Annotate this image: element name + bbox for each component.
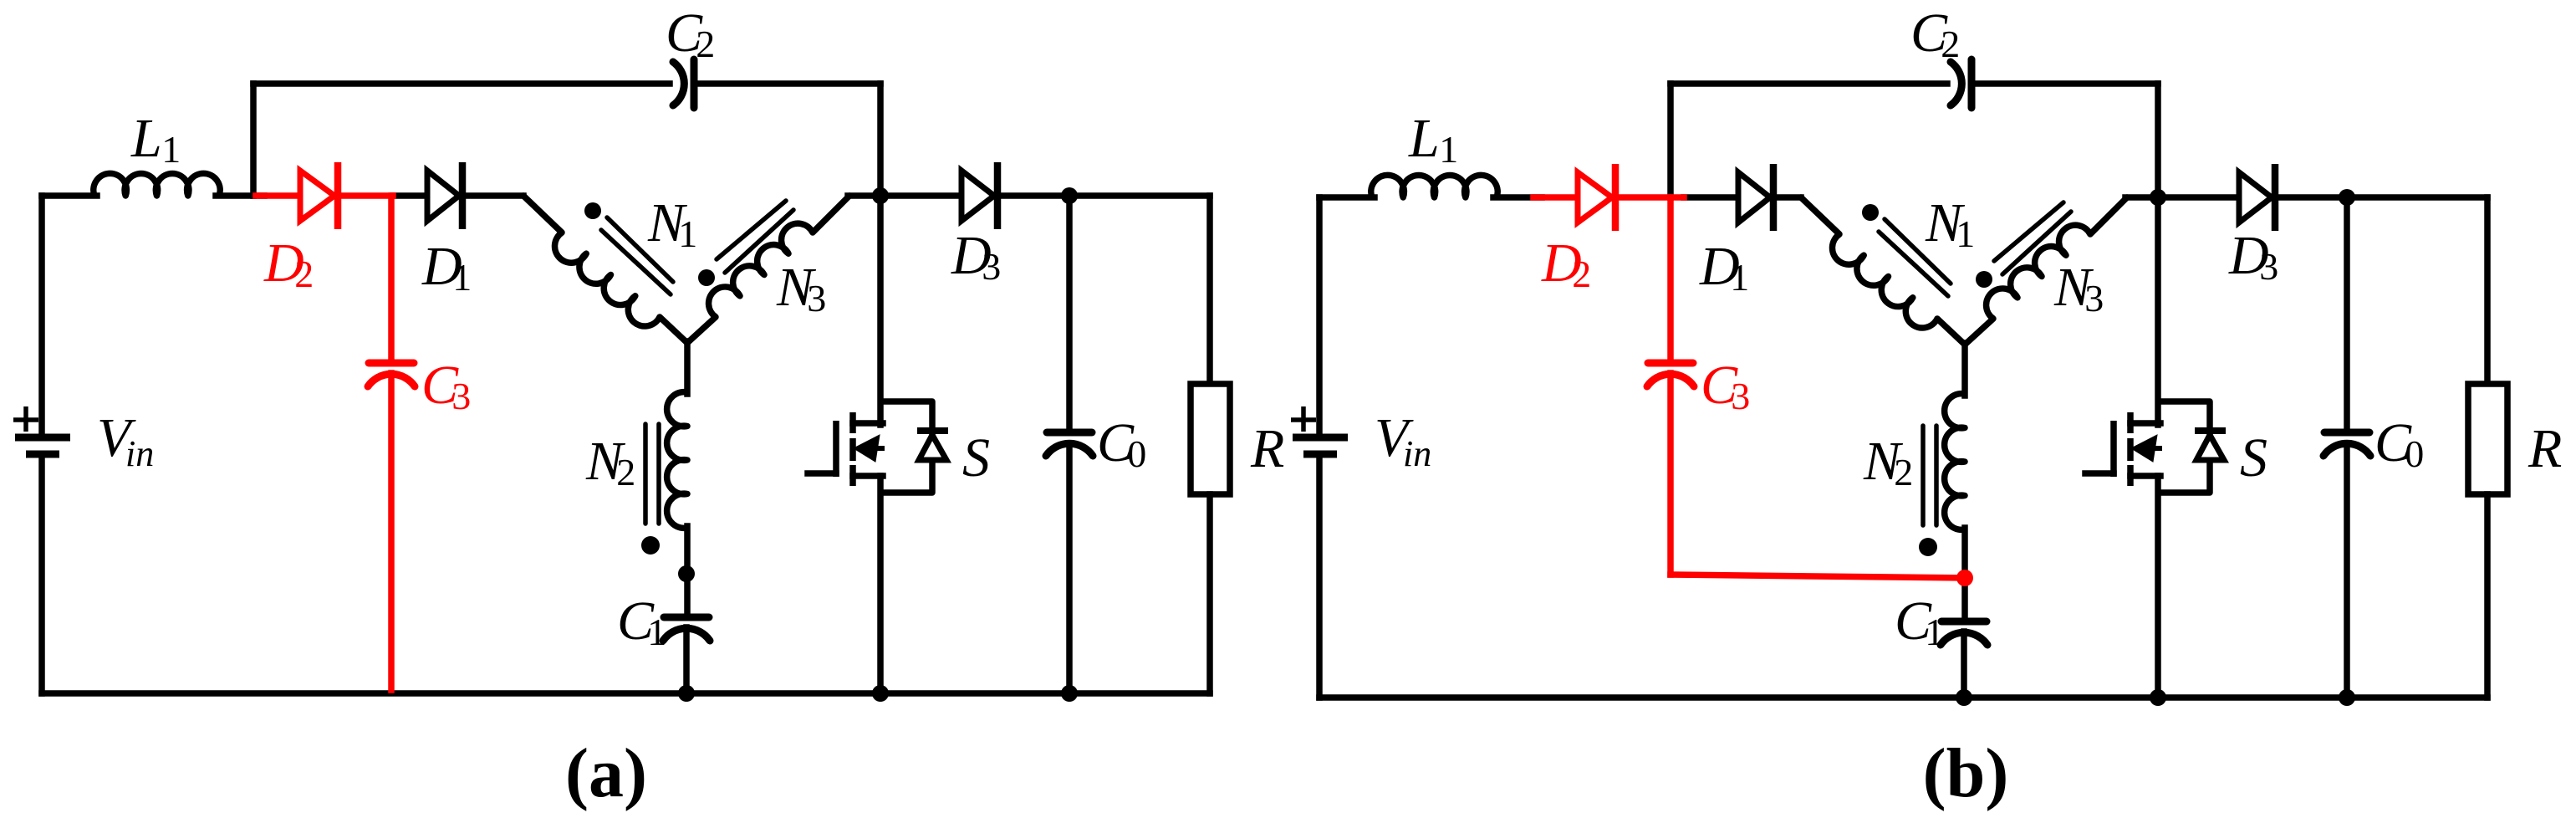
wire: C2 top wire right segment (a) [700, 80, 880, 87]
wire: output node to load branch (a) [1069, 192, 1210, 199]
svg-text:(b): (b) [1923, 734, 2009, 812]
wire: red link C3 to C1 node (b) [1671, 575, 1965, 578]
diode D2 red anode lead (a) [256, 192, 300, 199]
node dot C0-rail (b) [2339, 689, 2355, 706]
wire: C1 to ground rail (b) [1961, 631, 1967, 698]
capacitor C3 (a) [369, 360, 414, 367]
transistor S bulk arrow (a) [854, 435, 880, 462]
node A: drain node dot (b) [2150, 189, 2166, 206]
transistor S gate bar (b) [2110, 421, 2117, 477]
wire: C0 bottom lead (a) [1066, 444, 1073, 693]
wire: input top segment (b) [1319, 194, 1375, 201]
wire: node to D3 anode (a) [880, 192, 962, 199]
node dot C1-rail (a) [678, 685, 695, 702]
svg-text:3: 3 [1731, 375, 1750, 417]
transistor S source connect (b) [2130, 473, 2160, 479]
wire: center node to N2 (b) [1961, 343, 1968, 396]
svg-text:2: 2 [294, 253, 314, 295]
wire: C0 bottom lead (b) [2344, 444, 2350, 698]
svg-text:1: 1 [452, 256, 472, 299]
wire: D2 cathode red lead (a) [335, 192, 393, 199]
svg-text:1: 1 [647, 611, 666, 653]
wire: C3 top red lead (b) [1667, 197, 1674, 360]
wire: output node to load branch (b) [2347, 194, 2487, 201]
svg-text:1: 1 [161, 128, 181, 171]
winding N3 core bars (b) [1994, 202, 2063, 261]
diode D1 (b) [1738, 172, 1770, 222]
svg-text:1: 1 [1956, 212, 1975, 255]
wire: diagonal into winding N1 (a) [523, 196, 562, 233]
transistor S bulk arrow (b) [2131, 435, 2157, 462]
capacitor C0 (a) [1047, 429, 1092, 437]
resistor R (b) [2468, 384, 2507, 494]
wire: C3 bottom red lead to rail (a) [388, 373, 395, 690]
wire: C3 node to D1 anode (b) [1684, 194, 1738, 201]
svg-text:in: in [125, 433, 154, 474]
svg-text:L: L [130, 108, 162, 169]
svg-text:in: in [1403, 433, 1431, 474]
wire: L1 to D2 anode (a) [216, 192, 264, 199]
wire: C3 top red lead (a) [388, 196, 395, 360]
svg-text:R: R [1250, 418, 1284, 479]
svg-text:1: 1 [1925, 611, 1944, 653]
inductor L1 (b) [1371, 175, 1497, 197]
wire: D1 cathode to coupled inductor (a) [462, 192, 523, 199]
winding N2 coil (a) [667, 392, 687, 529]
transistor S drain connect (a) [853, 420, 883, 427]
wire: center node to N2 (a) [684, 341, 691, 394]
wire: D1 cathode to coupled inductor (b) [1773, 194, 1801, 201]
winding N1 core bars (a) [607, 217, 673, 282]
transistor S body diode (b) [2196, 435, 2224, 460]
capacitor C1 (b) [1941, 618, 1987, 626]
wire: diagonal center to N3 (a) [687, 317, 716, 343]
wire: R bottom lead (b) [2484, 494, 2491, 698]
diode D2 (b) [1578, 172, 1612, 222]
svg-text:2: 2 [616, 451, 635, 493]
transistor S body-diode loop (a) [880, 401, 932, 493]
wire: L1 to D2 anode (b) [1493, 194, 1542, 201]
source Vin battery plates (b) [1293, 434, 1348, 442]
svg-text:3: 3 [2084, 277, 2104, 319]
wire: Vin top lead (b) [1316, 197, 1323, 434]
transistor S channel segments (b) [2127, 412, 2134, 433]
winding N2 core bars (a) [643, 424, 648, 524]
svg-text:S: S [962, 427, 990, 488]
wire: Vin bottom lead (b) [1316, 458, 1323, 698]
capacitor C2 curved plate (b) [1951, 62, 1961, 105]
wire: D3 cathode to output node (a) [997, 192, 1069, 199]
wire: C3 node to D1 anode (a) [393, 192, 427, 199]
transistor S source connect (a) [853, 473, 883, 479]
wire: MOSFET source to rail (b) [2155, 476, 2161, 698]
node junction above C1 (a) [678, 565, 695, 582]
svg-text:2: 2 [1894, 451, 1913, 493]
svg-text:S: S [2240, 427, 2267, 488]
node dot source-rail (b) [2150, 689, 2166, 706]
diode D3 (b) [2239, 172, 2272, 222]
node dot C1-rail (b) [1956, 689, 1972, 706]
node dot C0-rail (a) [1061, 685, 1078, 702]
winding N3 coil (b) [1987, 225, 2090, 319]
wire: C0 top lead (b) [2344, 197, 2350, 432]
winding N3 polarity dot (b) [1976, 271, 1992, 288]
svg-text:2: 2 [696, 23, 715, 65]
wire: C2 left tap vertical (a) [250, 84, 257, 196]
node B: output node dot (b) [2339, 189, 2355, 206]
wire: C2 top wire right segment (b) [1977, 80, 2158, 87]
capacitor C2 curved plate (a) [673, 62, 684, 105]
winding N3 polarity dot (a) [698, 269, 715, 286]
wire: C3 bottom red lead (b) [1667, 373, 1674, 575]
diode D2 red anode lead (b) [1533, 194, 1578, 201]
svg-text:0: 0 [1127, 432, 1146, 475]
wire: C2 right end down to node / MOSFET drain (b) [2155, 84, 2161, 425]
svg-text:2: 2 [1572, 253, 1591, 295]
capacitor C2 flat plate (a) [691, 59, 698, 108]
winding N1 polarity dot (a) [584, 202, 601, 219]
wire: C2 top wire left segment (b) [1671, 80, 1947, 87]
winding N1 polarity dot (b) [1862, 204, 1879, 221]
svg-text:3: 3 [982, 245, 1001, 288]
wire: diagonal into winding N1 (b) [1801, 197, 1839, 234]
wire: N1 to center node (b) [1937, 319, 1965, 345]
wire: N1 to center node (a) [660, 317, 687, 343]
wire: C0 top lead (a) [1066, 196, 1073, 432]
source Vin plus sign (b) [1301, 406, 1306, 432]
winding N2 core bars (b) [1921, 426, 1926, 525]
svg-text:1: 1 [1439, 128, 1458, 171]
svg-text:3: 3 [807, 277, 826, 319]
wire: N2 to C1 (b) [1961, 528, 1968, 621]
winding N3 core bars (a) [717, 201, 786, 259]
svg-text:L: L [1408, 108, 1440, 169]
winding N2 polarity dot (b) [1919, 538, 1937, 556]
diode D3 (a) [962, 171, 994, 221]
wire: C1 to ground rail (a) [683, 627, 690, 693]
svg-text:0: 0 [2405, 432, 2424, 475]
winding N2 polarity dot (a) [641, 536, 660, 555]
transistor S gate lead (b) [2085, 470, 2114, 477]
node dot source-rail (a) [872, 685, 889, 702]
svg-text:1: 1 [678, 212, 697, 255]
inductor L1 (a) [94, 173, 220, 196]
wire: C2 top wire left segment (a) [253, 80, 670, 87]
svg-text:2: 2 [1941, 23, 1960, 65]
transistor S body-diode loop (b) [2158, 401, 2210, 493]
wire: ground rail (a) [42, 690, 1210, 697]
capacitor C1 (a) [664, 614, 709, 621]
wire: N3 diagonal to drain node (a) [813, 196, 849, 233]
wire: C2 right end down to node / MOSFET drain (a) [877, 84, 884, 425]
transistor S gate lead (a) [808, 470, 836, 477]
wire: MOSFET source to rail (a) [877, 476, 884, 693]
node A: drain node dot (a) [872, 187, 889, 204]
transistor S drain connect (b) [2130, 420, 2160, 427]
wire: C2 left tap vertical (b) [1667, 84, 1674, 197]
node B: output node dot (a) [1061, 187, 1078, 204]
svg-text:3: 3 [451, 375, 471, 417]
svg-text:1: 1 [1730, 256, 1749, 299]
wire: N3 stub to node (a) [848, 192, 880, 199]
source Vin battery plates (a) [15, 434, 70, 442]
capacitor C3 (b) [1648, 360, 1693, 367]
diode D2 (a) [300, 171, 334, 221]
wire: R bottom lead (a) [1206, 494, 1213, 693]
wire: N2 to C1 (a) [684, 526, 691, 617]
winding N1 coil (b) [1832, 234, 1937, 328]
capacitor C2 flat plate (b) [1968, 59, 1976, 108]
wire: R top lead (a) [1206, 196, 1213, 384]
winding N2 coil (b) [1945, 394, 1965, 530]
winding N3 coil (a) [709, 223, 813, 317]
wire: input top segment (a) [42, 192, 97, 199]
svg-text:R: R [2528, 418, 2562, 479]
transistor S gate bar (a) [833, 421, 839, 477]
wire: D3 cathode to output node (b) [2274, 194, 2347, 201]
node dot red link at C1 (b) [1956, 570, 1973, 586]
wire: ground rail (b) [1319, 694, 2487, 701]
wire: node to D3 anode (b) [2158, 194, 2239, 201]
winding N1 core bars (b) [1885, 219, 1951, 284]
transistor S channel segments (a) [849, 412, 856, 433]
resistor R (a) [1191, 384, 1230, 494]
winding N1 coil (a) [554, 233, 660, 326]
wire: R top lead (b) [2484, 197, 2491, 384]
wire: D2 cathode red lead (b) [1613, 194, 1684, 201]
wire: diagonal center to N3 (b) [1965, 319, 1993, 345]
svg-text:(a): (a) [565, 734, 647, 812]
capacitor C0 (b) [2324, 429, 2369, 437]
diode D1 (a) [427, 171, 459, 221]
source Vin plus sign (a) [23, 406, 28, 432]
wire: Vin bottom lead (a) [38, 458, 45, 693]
wire: N3 stub to node (b) [2125, 194, 2158, 201]
transistor S body diode (a) [919, 435, 946, 460]
svg-text:3: 3 [2259, 245, 2278, 288]
wire: Vin top lead (a) [38, 196, 45, 434]
wire: N3 diagonal to drain node (b) [2090, 197, 2127, 234]
